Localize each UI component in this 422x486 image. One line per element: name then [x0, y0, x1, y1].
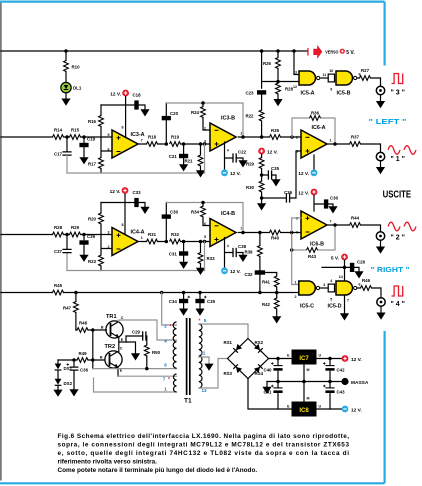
svg-text:7: 7: [141, 138, 143, 142]
svg-text:5: 5: [296, 217, 298, 221]
svg-text:6: 6: [108, 148, 110, 152]
svg-text:C36: C36: [284, 190, 293, 195]
svg-text:" 2 ": " 2 ": [391, 235, 405, 242]
svg-text:C35: C35: [271, 166, 280, 171]
svg-text:R45: R45: [54, 283, 63, 288]
svg-text:4: 4: [330, 279, 332, 283]
svg-text:R41: R41: [262, 280, 271, 285]
svg-text:C41: C41: [263, 390, 272, 395]
svg-text:R29: R29: [246, 161, 255, 166]
svg-text:R39: R39: [244, 249, 253, 254]
svg-text:7: 7: [240, 227, 242, 231]
svg-text:C40: C40: [263, 368, 272, 373]
svg-text:6: 6: [204, 222, 206, 226]
svg-text:R16: R16: [88, 119, 97, 124]
svg-text:R14: R14: [54, 128, 63, 133]
svg-text:C35: C35: [207, 299, 216, 304]
svg-text:C18: C18: [132, 93, 141, 98]
svg-text:10: 10: [329, 69, 333, 73]
svg-text:M: M: [307, 368, 310, 372]
svg-text:IC3-B: IC3-B: [221, 116, 235, 122]
svg-text:*: *: [170, 324, 172, 330]
svg-text:R44: R44: [351, 216, 360, 221]
svg-text:12 V.: 12 V.: [110, 91, 121, 97]
svg-text:Fig.6 Schema elettrico dell'in: Fig.6 Schema elettrico dell'interfaccia …: [58, 433, 350, 440]
svg-text:C34: C34: [169, 299, 178, 304]
svg-text:sopra, le connessioni degli in: sopra, le connessioni degli integrati MC…: [58, 442, 350, 449]
svg-text:IC5-D: IC5-D: [328, 304, 342, 310]
svg-text:IC8: IC8: [299, 408, 309, 414]
svg-text:14: 14: [339, 275, 343, 279]
svg-text:6: 6: [164, 363, 167, 368]
svg-text:R43: R43: [308, 254, 317, 259]
svg-text:R32: R32: [171, 232, 180, 237]
svg-text:2: 2: [295, 295, 297, 299]
svg-text:R50: R50: [152, 350, 161, 355]
svg-text:RS3: RS3: [223, 371, 232, 376]
svg-text:VERSO: VERSO: [325, 50, 339, 55]
svg-text:R40: R40: [271, 236, 280, 241]
svg-text:R34: R34: [191, 210, 200, 215]
svg-text:C42: C42: [337, 368, 346, 373]
svg-text:C22: C22: [238, 150, 247, 155]
svg-text:5: 5: [204, 318, 207, 323]
svg-text:RS1: RS1: [223, 340, 232, 345]
svg-text:C39: C39: [87, 234, 96, 239]
svg-text:RS2: RS2: [255, 340, 264, 345]
svg-text:2: 2: [204, 127, 206, 131]
svg-text:C43: C43: [337, 390, 346, 395]
svg-text:" LEFT ": " LEFT ": [369, 119, 407, 126]
svg-text:12 V.: 12 V.: [230, 171, 241, 177]
svg-text:13: 13: [293, 71, 297, 75]
svg-text:R23: R23: [88, 259, 97, 264]
svg-text:C32: C32: [244, 272, 253, 277]
svg-text:R19: R19: [171, 135, 180, 140]
svg-text:11: 11: [322, 73, 326, 77]
svg-text:C21: C21: [169, 154, 178, 159]
svg-text:IC4-B: IC4-B: [221, 211, 235, 217]
svg-text:5: 5: [108, 133, 110, 137]
svg-text:C33: C33: [132, 190, 141, 195]
svg-text:R24: R24: [191, 110, 200, 115]
svg-text:12 V.: 12 V.: [230, 269, 241, 275]
svg-text:R26: R26: [263, 61, 272, 66]
svg-text:*: *: [168, 377, 170, 383]
svg-text:2: 2: [296, 136, 298, 140]
svg-text:R35: R35: [271, 128, 280, 133]
svg-text:6: 6: [359, 282, 361, 286]
svg-text:DL1: DL1: [73, 86, 82, 91]
svg-text:C36: C36: [80, 368, 89, 373]
svg-text:3: 3: [204, 140, 206, 144]
svg-text:Come potete notare il terminal: Come potete notare il terminale più lung…: [58, 467, 258, 474]
svg-text:T1: T1: [184, 398, 192, 405]
svg-text:8: 8: [122, 126, 124, 130]
svg-text:12 V.: 12 V.: [351, 407, 362, 413]
svg-text:5: 5: [330, 298, 332, 302]
svg-text:R18: R18: [148, 135, 157, 140]
svg-text:" 1 ": " 1 ": [391, 156, 405, 163]
svg-text:U: U: [319, 405, 322, 409]
svg-text:DS1: DS1: [64, 366, 73, 371]
svg-text:2: 2: [164, 323, 167, 328]
svg-text:IC6-A: IC6-A: [312, 125, 326, 131]
svg-text:C31: C31: [169, 252, 178, 257]
svg-text:IC5-A: IC5-A: [301, 91, 315, 97]
svg-text:9: 9: [330, 88, 332, 92]
svg-text:R37: R37: [351, 135, 360, 140]
svg-text:E: E: [287, 354, 290, 358]
svg-text:C23: C23: [245, 91, 254, 96]
svg-text:" 4 ": " 4 ": [391, 301, 405, 308]
svg-text:C29: C29: [132, 329, 141, 334]
svg-text:R20: R20: [88, 217, 97, 222]
svg-text:IC3-A: IC3-A: [131, 132, 145, 138]
svg-text:R49: R49: [78, 351, 87, 356]
svg-text:11: 11: [201, 351, 206, 356]
svg-text:8: 8: [122, 223, 124, 227]
svg-text:B: B: [100, 355, 103, 359]
svg-text:3: 3: [108, 230, 110, 234]
svg-text:R48: R48: [79, 321, 88, 326]
svg-text:R21: R21: [184, 159, 193, 164]
svg-text:12 V.: 12 V.: [298, 190, 309, 196]
svg-text:" RIGHT ": " RIGHT ": [371, 267, 410, 274]
svg-text:IC5-C: IC5-C: [300, 304, 314, 310]
svg-text:MASSA: MASSA: [351, 380, 369, 386]
svg-text:IC5-B: IC5-B: [337, 91, 351, 97]
svg-text:C20: C20: [170, 111, 179, 116]
svg-text:B: B: [101, 325, 104, 329]
svg-text:" 3 ": " 3 ": [391, 90, 405, 97]
svg-text:R31: R31: [148, 232, 157, 237]
svg-text:R15: R15: [71, 128, 80, 133]
svg-text:12 V.: 12 V.: [351, 357, 362, 363]
svg-text:riferimento rivolta verso sini: riferimento rivolta verso sinistra.: [58, 459, 158, 466]
svg-text:5: 5: [204, 235, 206, 239]
svg-text:DS2: DS2: [64, 381, 73, 386]
svg-text:R47: R47: [63, 306, 72, 311]
svg-text:1: 1: [240, 132, 242, 136]
svg-text:7: 7: [330, 220, 332, 224]
svg-text:TR2: TR2: [105, 344, 116, 350]
svg-text:R22: R22: [245, 114, 254, 119]
svg-text:R46: R46: [362, 278, 371, 283]
svg-text:M: M: [307, 397, 310, 401]
svg-text:1: 1: [164, 387, 167, 392]
svg-text:3: 3: [323, 283, 325, 287]
svg-text:R33: R33: [207, 256, 216, 261]
svg-text:5 V.: 5 V.: [346, 50, 355, 56]
svg-text:E: E: [287, 405, 290, 409]
svg-text:4: 4: [227, 244, 229, 248]
svg-text:7: 7: [347, 299, 349, 303]
svg-text:1: 1: [330, 139, 332, 143]
svg-text:5 V.: 5 V.: [331, 255, 339, 261]
svg-text:12: 12: [293, 85, 297, 89]
svg-text:C26: C26: [357, 259, 366, 264]
svg-text:C19: C19: [87, 137, 96, 142]
svg-text:C37: C37: [54, 249, 63, 254]
svg-text:C30: C30: [170, 210, 179, 215]
svg-text:1: 1: [295, 281, 297, 285]
svg-text:2: 2: [108, 245, 110, 249]
svg-text:13: 13: [202, 388, 208, 393]
svg-text:R36: R36: [311, 110, 320, 115]
svg-text:e, sotto, quelle degli integra: e, sotto, quelle degli integrati 74HC132…: [58, 450, 350, 457]
svg-text:7: 7: [163, 376, 166, 381]
svg-text:RS4: RS4: [255, 371, 264, 376]
svg-text:12 V.: 12 V.: [267, 149, 278, 155]
svg-text:4: 4: [227, 149, 229, 153]
svg-text:R17: R17: [88, 162, 97, 167]
svg-text:IC4-A: IC4-A: [131, 229, 145, 235]
svg-text:U: U: [319, 354, 322, 358]
svg-text:1: 1: [141, 236, 143, 240]
svg-text:C30: C30: [330, 196, 339, 201]
svg-text:R10: R10: [72, 65, 81, 70]
svg-text:C: C: [120, 347, 123, 351]
svg-text:R29: R29: [71, 225, 80, 230]
svg-text:R30: R30: [246, 185, 255, 190]
svg-text:R28: R28: [54, 225, 63, 230]
svg-text:12 V.: 12 V.: [110, 189, 121, 195]
svg-text:TR1: TR1: [106, 314, 117, 320]
svg-text:R27: R27: [361, 68, 370, 73]
svg-text:R42: R42: [262, 302, 271, 307]
svg-text:IC7: IC7: [299, 356, 309, 362]
svg-text:12 V.: 12 V.: [298, 171, 309, 177]
svg-text:USCITE: USCITE: [383, 190, 412, 201]
svg-text:4: 4: [164, 338, 167, 343]
svg-text:C17: C17: [54, 152, 63, 157]
